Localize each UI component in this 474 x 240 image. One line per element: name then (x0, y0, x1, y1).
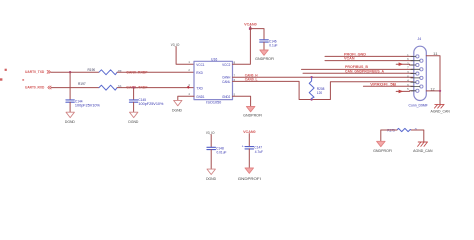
wire CAN0_TXDF to pin3 (117, 87, 194, 89)
node stub left B (0, 78, 2, 80)
wire junction to C144 (69, 72, 71, 100)
svg-text:ISO1050: ISO1050 (206, 101, 221, 105)
wire UART0_TXD row (51, 71, 99, 73)
wire C147 to ground (248, 149, 250, 168)
wire UART0_RXD row (51, 87, 99, 89)
ground DGND (under C144) (65, 112, 76, 124)
wire V3_IO to C148 (210, 135, 212, 148)
capacitor C145 (129, 98, 163, 106)
wire CAN_GND (303, 72, 414, 74)
svg-text:100pF25V10%: 100pF25V10% (75, 103, 100, 107)
junction R208 bottom (310, 98, 312, 100)
svg-text:PROFIBUS_B: PROFIBUS_B (345, 65, 369, 69)
junction on RXD row (132, 86, 134, 88)
port UART0_RXD (25, 85, 51, 90)
connector pin circles left column (416, 55, 419, 93)
ground DGND (IC GND1) (172, 100, 183, 112)
wire PROFIBUS_B (302, 68, 414, 70)
wire C146 to ground (263, 42, 265, 50)
connector J4 body (409, 37, 428, 107)
node stub left A (5, 69, 7, 71)
wire junction to C145 (133, 88, 135, 100)
ground GNDPROFI (under C146) (255, 50, 274, 61)
ground GNDPROFI (bottom mid) (238, 168, 261, 181)
svg-text:UART0_RXD: UART0_RXD (25, 85, 44, 90)
wire VCC2 to VCAN0 (233, 29, 251, 65)
ground GNDPROFI (R175 left) (373, 141, 392, 153)
wire C148 to ground (210, 150, 212, 169)
ground AGND_CAN (connector) (431, 104, 451, 113)
svg-text:AGND_CAN: AGND_CAN (431, 109, 451, 113)
wire CAN0_RXDF to pin2 (117, 71, 194, 73)
wire CANH (233, 76, 414, 78)
wire C144 to ground (69, 102, 71, 112)
svg-text:GND2: GND2 (222, 95, 230, 99)
wire R175 right to AGND (411, 130, 424, 142)
wire V3_IO to pin1 (176, 47, 194, 65)
svg-text:4: 4 (188, 92, 190, 96)
pin 11 wire (426, 52, 440, 91)
svg-text:CANL: CANL (222, 80, 230, 84)
svg-text:33: 33 (118, 85, 122, 89)
node VCAN0 junction (249, 27, 252, 30)
wire GND2 to ground (233, 96, 251, 106)
svg-text:4.7uF: 4.7uF (255, 150, 263, 154)
wire GND1 to ground (178, 96, 194, 100)
connector pin numbers 1,6,2,7,3,8,4,9,5 (407, 54, 409, 91)
svg-text:1: 1 (188, 60, 190, 64)
connector pin stubs (411, 56, 420, 90)
svg-text:R197: R197 (78, 82, 86, 86)
svg-text:V3_IO: V3_IO (206, 131, 215, 135)
svg-text:DGND: DGND (206, 177, 217, 181)
ground DGND (under C145) (128, 112, 139, 124)
ground GNDPROFI (IC GND2) (243, 107, 262, 118)
svg-text:U16: U16 (211, 58, 217, 62)
ground AGND_CAN (R175 right) (413, 142, 433, 153)
wire VCAN0 to C146 (250, 29, 264, 40)
svg-text:GNDPROFI: GNDPROFI (238, 177, 261, 181)
capacitor C148 (207, 147, 227, 155)
wire R175 left to ground (381, 130, 397, 141)
junction on TXD row (69, 71, 71, 73)
capacitor C147 (242, 144, 263, 154)
svg-text:5: 5 (407, 88, 409, 91)
svg-text:VCC2: VCC2 (222, 63, 230, 67)
connector pin circles right column (420, 59, 423, 88)
svg-text:11: 11 (433, 52, 438, 56)
svg-text:100pF25V10%: 100pF25V10% (138, 102, 163, 106)
wire VCAN0 to C147 (248, 134, 250, 147)
arrow stub pin (lower) (396, 90, 414, 94)
wire VCAN (325, 60, 414, 62)
svg-text:R190: R190 (88, 68, 96, 72)
svg-text:+: + (242, 144, 244, 148)
svg-text:J4: J4 (418, 37, 422, 41)
resistor R175 (387, 128, 417, 133)
marker TXD pin (187, 86, 190, 89)
svg-text:DGND: DGND (128, 120, 139, 124)
wire PROFI_GND (325, 55, 414, 57)
svg-text:120: 120 (317, 91, 323, 95)
wire C145 to ground (133, 102, 135, 112)
svg-text:0.1uF: 0.1uF (269, 43, 277, 47)
resistor R190 (88, 68, 122, 75)
svg-text:2: 2 (188, 68, 190, 72)
ground DGND (bottom) (206, 169, 217, 181)
svg-text:RXD: RXD (196, 71, 203, 75)
svg-text:GNDPROFI: GNDPROFI (243, 114, 262, 118)
svg-text:GNDPROFI: GNDPROFI (255, 57, 274, 61)
capacitor C144 (66, 99, 100, 107)
svg-text:UART0_TXD: UART0_TXD (25, 69, 44, 74)
pin 12 wire (426, 87, 440, 104)
svg-text:GNDPROFI: GNDPROFI (373, 149, 392, 153)
resistor R197 (78, 82, 122, 90)
svg-text:V3_IO: V3_IO (171, 43, 180, 47)
wire VPROFI_5B (363, 85, 414, 87)
arrow stub pin (upper) (396, 62, 414, 66)
svg-text:Conn_D9MF: Conn_D9MF (409, 103, 428, 107)
port UART0_TXD (25, 69, 50, 74)
svg-text:VCC1: VCC1 (196, 63, 204, 67)
resistor R208 (309, 77, 324, 99)
svg-text:GND1: GND1 (196, 95, 204, 99)
wire VCAN0 stub (249, 26, 251, 29)
op-amp U16 box (194, 58, 233, 105)
wire CANL detour (233, 81, 414, 99)
svg-text:DGND: DGND (65, 120, 76, 124)
junction pin12/shield (439, 90, 441, 92)
svg-text:DGND: DGND (172, 109, 183, 113)
svg-text:AGND_CAN: AGND_CAN (413, 149, 433, 153)
svg-text:33: 33 (118, 69, 122, 73)
junction R208 top (310, 76, 312, 78)
svg-text:0.01uF: 0.01uF (217, 151, 227, 155)
svg-text:TXD: TXD (196, 86, 203, 90)
capacitor C146 (260, 39, 278, 47)
